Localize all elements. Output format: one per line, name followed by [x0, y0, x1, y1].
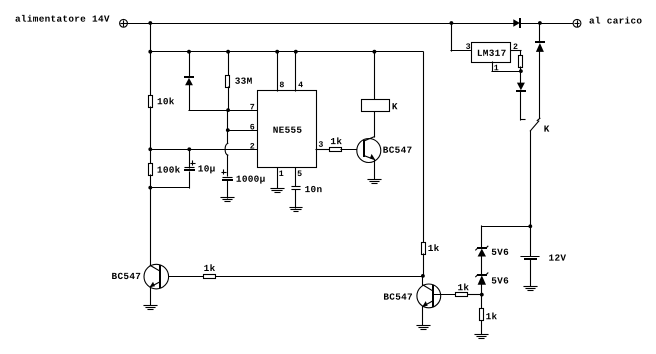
junction top rail x=540: [538, 21, 542, 25]
junction rail2 x=150: [148, 50, 152, 54]
resistor 33M: [226, 52, 230, 110]
svg-text:LM317: LM317: [477, 48, 507, 59]
terminal alimentatore (+): [120, 19, 128, 27]
svg-text:33M: 33M: [235, 76, 253, 87]
svg-text:10k: 10k: [157, 96, 175, 107]
capacitor 10n: [292, 187, 300, 209]
resistor LM317 adj: [519, 56, 523, 68]
junction pin7 node: [226, 108, 230, 112]
diode D2 series on top rail: [513, 19, 520, 27]
zener diode Z1 5V6 (upper): [476, 226, 488, 257]
junction top rail x=150: [148, 21, 152, 25]
wire left vertical x=150 lower: [150, 175, 152, 265]
ground below Q2: [144, 306, 157, 310]
transistor Q1 BC547 (relay driver): [357, 111, 381, 179]
svg-text:10n: 10n: [305, 184, 323, 195]
wire top rail right (D2 to terminal): [520, 23, 573, 25]
svg-text:NE555: NE555: [273, 125, 303, 136]
wire Q2 base row to Q3 node: [215, 276, 423, 278]
svg-text:BC547: BC547: [112, 271, 142, 282]
svg-text:6: 6: [250, 123, 255, 132]
svg-text:1k: 1k: [428, 243, 440, 254]
svg-text:5V6: 5V6: [491, 276, 509, 287]
junction Q3 collector node: [421, 274, 425, 278]
svg-text:4: 4: [298, 81, 303, 90]
wire left vertical x=150 top: [150, 23, 152, 96]
junction 100k bottom: [148, 186, 152, 190]
resistor 1k (pin3): [330, 148, 342, 152]
wire pin7 row: [189, 110, 258, 112]
svg-text:K: K: [544, 124, 550, 135]
switch K contact: [530, 118, 540, 256]
wire LM317 pin1 to adj node: [492, 62, 521, 72]
svg-text:5V6: 5V6: [491, 247, 509, 258]
wire second rail y=51.7: [150, 51, 423, 53]
wire 1000u drop with hop over pin2 line: [225, 130, 228, 176]
IC NE555 box: [258, 91, 317, 168]
wire LM317 pin2 to resistor: [511, 51, 521, 57]
wire 1k to Q3 collector node: [423, 254, 425, 276]
junction rail2 33M: [226, 50, 230, 54]
wire pin 4: [295, 52, 297, 91]
wire top rail left (terminal to diode D2): [127, 23, 513, 25]
junction zener node: [480, 293, 484, 297]
transistor Q2 BC547 (bottom left): [144, 264, 169, 305]
svg-text:100k: 100k: [157, 165, 181, 176]
wire LM317 input drop: [451, 23, 472, 51]
svg-text:7: 7: [250, 103, 255, 112]
junction rail2 diode D1: [187, 50, 191, 54]
svg-text:2: 2: [250, 143, 255, 152]
svg-text:alimentatore 14V: alimentatore 14V: [15, 14, 110, 25]
wire 1k to zener node: [468, 294, 482, 296]
svg-text:1k: 1k: [330, 136, 342, 147]
svg-text:12V: 12V: [549, 253, 567, 264]
resistor 100k: [149, 164, 153, 176]
svg-text:8: 8: [279, 81, 284, 90]
svg-text:1000µ: 1000µ: [236, 174, 266, 185]
terminal al carico (+): [573, 19, 581, 27]
wire Q2 bar to 1k: [160, 276, 203, 278]
wire Q3 base to 1k: [433, 294, 456, 296]
wire pin 8: [277, 52, 279, 91]
wire left vertical x=150 mid: [150, 107, 152, 164]
resistor 1k (below zener node): [480, 295, 484, 334]
resistor 1k (from rail2 corner): [422, 243, 426, 255]
svg-text:1: 1: [279, 170, 284, 179]
battery 12V: [521, 257, 539, 287]
svg-text:5: 5: [297, 170, 302, 179]
junction rail2 pin8: [275, 50, 279, 54]
svg-text:al carico: al carico: [589, 16, 642, 27]
svg-text:3: 3: [318, 141, 323, 150]
wire 1k to Q1 base: [341, 149, 364, 151]
capacitor 1000u: [222, 170, 232, 198]
junction pin2 row 10u: [187, 147, 191, 151]
junction rail2 relay: [373, 50, 377, 54]
junction rail2 pin4: [294, 50, 298, 54]
wire bottom of 100k/10u: [150, 187, 189, 189]
junction pin2 row x=150: [148, 147, 152, 151]
ground below 10n: [290, 208, 302, 212]
resistor 1k (Q2 base): [204, 275, 216, 279]
junction top rail x=451: [450, 21, 454, 25]
svg-text:1k: 1k: [457, 282, 469, 293]
svg-text:1k: 1k: [204, 263, 216, 274]
svg-text:BC547: BC547: [383, 145, 413, 156]
transistor Q3 BC547 (bottom right): [417, 276, 441, 325]
wire resistor to adj node: [520, 67, 522, 71]
diode D3 (top rail to switch): [536, 23, 544, 118]
resistor 10k: [149, 96, 153, 108]
relay coil K: [362, 52, 390, 112]
svg-text:K: K: [392, 101, 398, 112]
svg-text:1k: 1k: [486, 311, 498, 322]
ground below Q3: [417, 326, 430, 330]
svg-text:3: 3: [466, 43, 471, 52]
wire pin 1: [277, 168, 279, 188]
ground below Q1: [368, 180, 381, 184]
zener diode Z2 5V6 (lower): [476, 256, 488, 295]
wire 1000u drop (pin7 node to pin6 node): [227, 110, 229, 130]
svg-text:10µ: 10µ: [198, 164, 216, 175]
diode D4 (adj node down): [517, 71, 525, 120]
capacitor 10u: [185, 149, 195, 188]
wire right vertical from rail2 corner down to 1k: [423, 52, 425, 242]
wire zener top to battery node: [482, 226, 530, 228]
ground below battery: [524, 287, 537, 291]
diode D1 (rail2 to pin7 node): [185, 52, 193, 110]
wire pin2 row: [150, 149, 258, 151]
IC LM317 box: [472, 43, 511, 63]
svg-text:BC547: BC547: [383, 292, 413, 303]
ground below pin 1: [271, 189, 284, 193]
junction LM317 adj node: [519, 69, 523, 73]
ground below 1000u: [221, 198, 234, 202]
wire pin 3 to resistor: [316, 149, 329, 151]
wire pin 5: [295, 168, 297, 186]
junction battery node: [528, 224, 532, 228]
wire pin6 stub: [228, 130, 258, 132]
junction pin6 node: [226, 128, 230, 132]
ground below 1k: [475, 335, 488, 339]
resistor 1k (Q3 base): [456, 293, 468, 297]
